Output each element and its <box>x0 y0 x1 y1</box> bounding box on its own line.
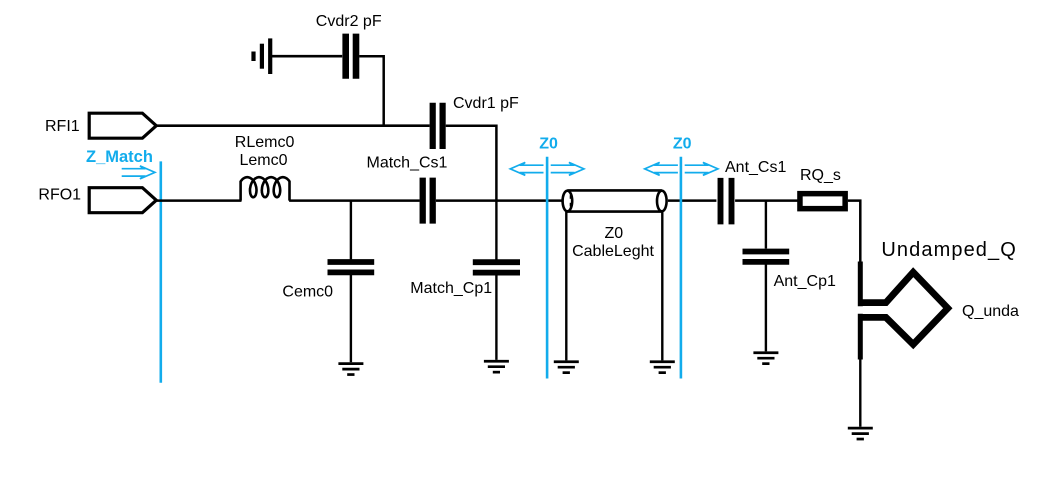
component Q_unda lead bottom <box>858 314 863 360</box>
wire node to Match_Cp1 <box>495 201 497 260</box>
svg-text:RFO1: RFO1 <box>38 187 81 204</box>
wire RQ_s to corner and down <box>848 201 860 262</box>
wire node to Cemc0 <box>350 201 352 260</box>
wire Cvdr1 to node, down to main line <box>446 126 497 201</box>
port RFO1 <box>89 188 156 213</box>
svg-text:Ant_Cs1: Ant_Cs1 <box>725 159 786 176</box>
ground G1 (rotated, for Cvdr2) <box>254 38 271 74</box>
port RFI1 <box>89 113 156 138</box>
svg-text:RFI1: RFI1 <box>45 118 80 135</box>
capacitor Ant_Cs1 <box>718 178 724 225</box>
ground G7 <box>848 428 873 439</box>
wire Q_unda to ground <box>859 360 861 427</box>
capacitor Match_Cs1 <box>420 178 426 224</box>
svg-text:Match_Cs1: Match_Cs1 <box>367 155 448 172</box>
svg-text:Cemc0: Cemc0 <box>282 283 333 300</box>
ground G3 <box>484 361 509 372</box>
svg-text:Lemc0: Lemc0 <box>240 152 288 169</box>
component Q_unda diamond <box>858 272 948 344</box>
svg-text:RQ_s: RQ_s <box>800 167 841 184</box>
wire coax to Ant_Cs1 <box>668 199 716 202</box>
svg-text:Q_unda: Q_unda <box>962 303 1019 320</box>
node line Z0 right <box>680 157 683 379</box>
arrow Z0-left inward <box>551 162 584 175</box>
wire coax left shield down <box>565 212 567 361</box>
arrow Z0-right inward <box>685 162 718 175</box>
capacitor Cemc0 <box>328 259 375 265</box>
node line Z_Match <box>160 161 163 382</box>
svg-text:Z0: Z0 <box>539 136 558 153</box>
capacitor Ant_Cp1 <box>743 249 790 255</box>
ground G6 <box>753 353 778 364</box>
wire coax right shield down <box>661 212 663 361</box>
svg-text:Match_Cp1: Match_Cp1 <box>410 280 492 297</box>
wire inductor to Match_Cs1 <box>289 199 419 202</box>
wire Match_Cp1 to ground <box>495 275 497 360</box>
inductor Lemc0 <box>241 177 290 200</box>
capacitor Match_Cp1 <box>473 259 520 265</box>
capacitor Cvdr2 <box>342 34 349 79</box>
coax cable Z0 CableLeght <box>563 190 667 211</box>
wire ground to Cvdr2 <box>270 55 342 58</box>
svg-text:Ant_Cp1: Ant_Cp1 <box>774 273 836 290</box>
wire Ant_Cs1 to RQ_s <box>735 199 797 202</box>
arrow Z0-right outward <box>645 162 678 175</box>
svg-text:CableLeght: CableLeght <box>572 243 654 260</box>
ground G2 <box>338 364 363 375</box>
svg-text:Undamped_Q: Undamped_Q <box>881 239 1017 261</box>
wire node to Ant_Cp1 <box>765 201 767 249</box>
svg-text:RLemc0: RLemc0 <box>235 134 295 151</box>
capacitor Cvdr1 <box>430 103 436 149</box>
ground G4 <box>554 362 579 373</box>
arrow Z0-left outward <box>510 162 543 175</box>
resistor RQ_s <box>800 194 845 209</box>
svg-text:Z_Match: Z_Match <box>86 148 153 166</box>
component Q_unda lead top <box>858 262 863 307</box>
svg-text:Cvdr1 pF: Cvdr1 pF <box>453 95 519 112</box>
wire Cemc0 to ground <box>350 275 352 362</box>
svg-text:Cvdr2 pF: Cvdr2 pF <box>316 13 382 30</box>
coax inner conductor dots <box>570 195 572 199</box>
wire Cvdr2 to node <box>359 56 384 127</box>
wire RFI1 to Cvdr1 <box>156 124 429 127</box>
ground G5 <box>650 362 675 373</box>
wire Match_Cs1 to coax <box>436 199 562 202</box>
svg-text:Z0: Z0 <box>605 225 624 242</box>
wire Ant_Cp1 to ground <box>765 265 767 352</box>
wire RFO1 to inductor <box>156 199 241 202</box>
arrow Z_Match <box>122 166 155 179</box>
node line Z0 left <box>546 157 549 379</box>
svg-text:Z0: Z0 <box>673 136 692 153</box>
